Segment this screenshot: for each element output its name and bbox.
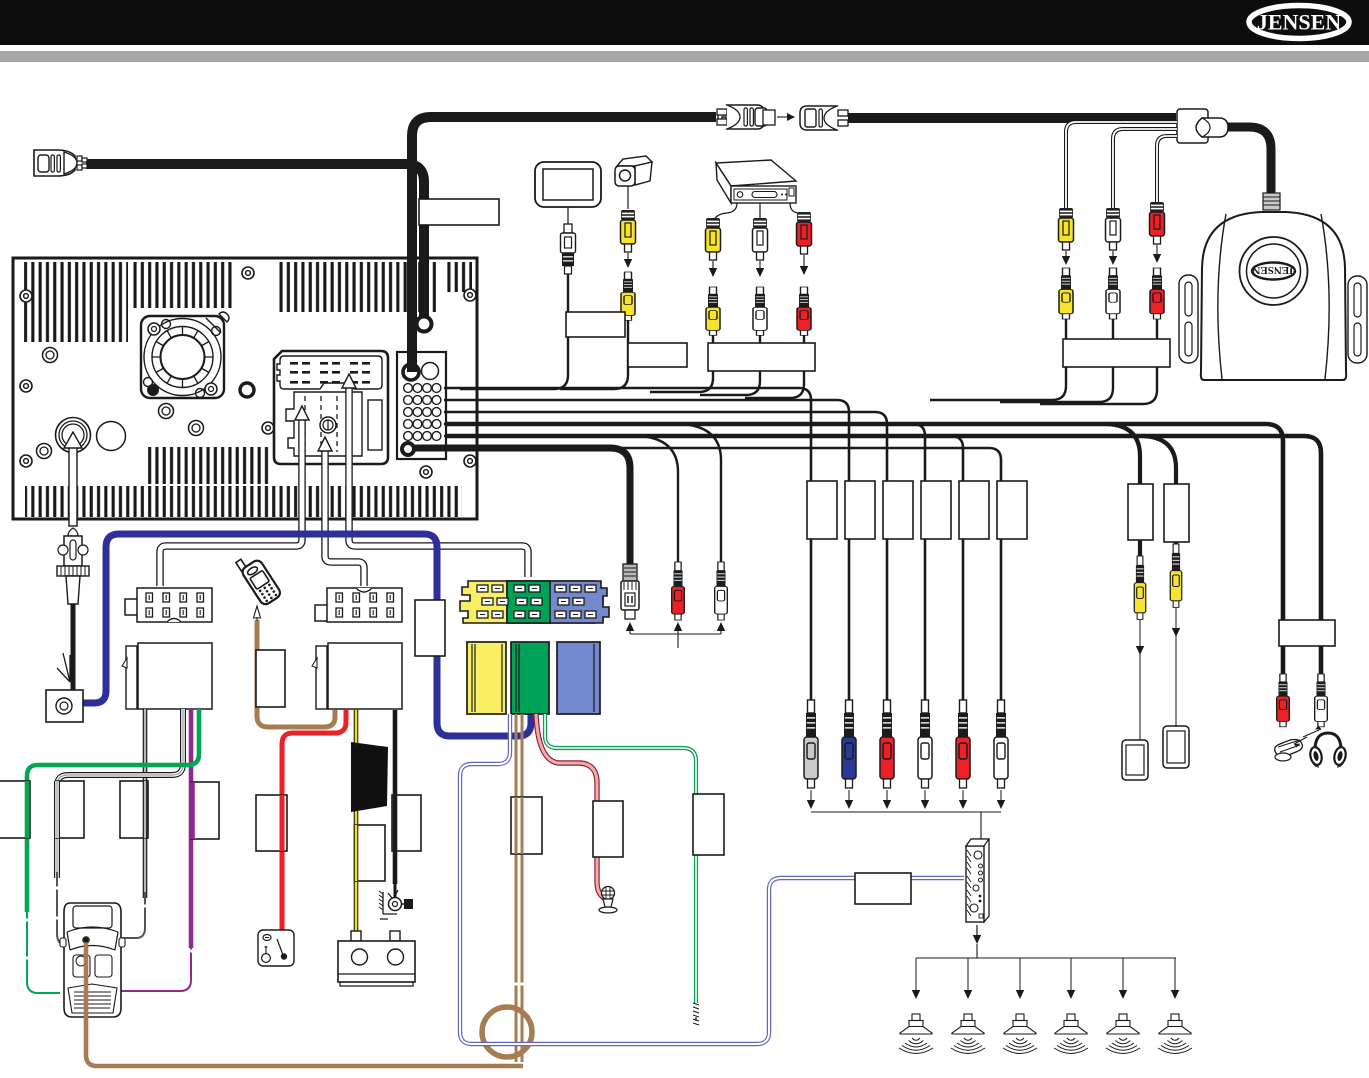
label box: amp turn-on [855, 873, 911, 904]
main wiring connector [274, 351, 388, 464]
label box: purple wire [191, 782, 219, 839]
white RCA plug (headphone) [1315, 674, 1328, 727]
cooling fan [141, 312, 229, 398]
label box: green wire [0, 781, 30, 838]
DVD white plug female [753, 287, 767, 335]
ground terminal [379, 884, 413, 919]
DVD yellow plug male [706, 218, 721, 260]
cables below box [1283, 646, 1321, 678]
green block connector [511, 642, 549, 714]
interface module 2 [312, 643, 402, 709]
label box: cables callout [419, 199, 499, 225]
rear camera icon [615, 156, 652, 209]
monitor white RCA plug [561, 224, 576, 274]
RCA plug gray [804, 700, 818, 788]
tri-color harness connector [460, 581, 609, 623]
right mounting strap [1348, 276, 1367, 363]
wire: pink microphone lead [536, 714, 604, 898]
wire: black ground lead [393, 710, 398, 884]
wire: aux white cable merging into bus [1000, 318, 1113, 402]
label boxes over bundle [807, 481, 837, 539]
wire: red accessory to ignition [282, 710, 346, 936]
battery [338, 931, 415, 986]
label box: headphone audio [1279, 620, 1335, 646]
RCA plug red2 [956, 700, 970, 788]
heatsink fins top-left [24, 262, 128, 342]
label box: phone mute [256, 650, 285, 707]
wire: branch to screen A [1108, 424, 1140, 558]
label box: aux callout [1063, 339, 1170, 367]
label box: screen B cable [1164, 484, 1189, 542]
wire: DVD yellow cable merging into bus [650, 330, 713, 392]
label box: blue lead callout [415, 600, 445, 656]
wire: AV bus line 3 to RCA 3 [444, 412, 887, 700]
A/V RCA jack panel [397, 352, 446, 459]
panel holes [43, 348, 58, 363]
headphones icon [1309, 733, 1348, 767]
label box: DVD callout [708, 343, 815, 371]
wire: thick cable from connector to Jensen sat module [1225, 127, 1271, 194]
wire: blue power antenna lead [83, 534, 531, 736]
RCA plug white [918, 700, 932, 788]
chassis screws [20, 290, 32, 302]
heatsink fins mid-lower [145, 447, 270, 484]
screen B [1163, 726, 1189, 768]
label box: green remote [693, 794, 724, 855]
DVD red plug female [797, 287, 811, 335]
JENSEN logo [1249, 6, 1349, 39]
bare wire end coil [693, 1003, 699, 1025]
wire: branch to white RCA (monitor audio) [682, 424, 721, 566]
wire: iPod/USB cable to head unit (left plug) [86, 164, 424, 316]
wire: long cable to rear monitor 4 [446, 436, 1321, 620]
arrow below amp + speaker bracket [912, 925, 1179, 999]
fuse holder (black) [351, 742, 388, 812]
wire: harness lead C (white) [349, 386, 528, 577]
wire: cable from USB pair to right connector [848, 113, 1176, 123]
microphone icon [599, 887, 617, 914]
screen A [1122, 740, 1148, 780]
arrows + bracket to amp [807, 790, 1005, 839]
svg-text:JENSEN: JENSEN [1257, 10, 1341, 35]
wire: thick video cable to S-video plug [415, 448, 630, 564]
DVD player icon [713, 160, 804, 224]
label box: camera callout [628, 343, 687, 367]
svg-text:JENSEN: JENSEN [1252, 264, 1294, 276]
label box: brown pair [511, 797, 542, 854]
car (top view) [60, 903, 125, 1017]
heatsink fins top-right [278, 262, 440, 312]
heatsink fins bottom row [25, 486, 462, 517]
thin leads + arrows to screens [1136, 608, 1180, 740]
re-draw wires over boxes [25, 781, 30, 838]
aux yellow plug female [1059, 268, 1073, 319]
wire: harness lead A (white) [160, 418, 302, 586]
label box: gray pair [56, 781, 84, 838]
arrows DVD [713, 255, 804, 271]
yellow pins [477, 585, 488, 592]
wire: GPS antenna cable from RCA panel to top [412, 117, 716, 372]
camera yellow plug (female) [621, 272, 635, 320]
wire: harness lead B (white) [325, 448, 364, 586]
grommet ring on unit top (cable2 end) [417, 317, 432, 332]
monitor icon [535, 162, 601, 224]
amplifier [966, 839, 989, 922]
white RCA plug [715, 562, 728, 620]
aux input cables from white connector [1066, 122, 1177, 210]
wire: AV bus line 1 to RCA 1 [444, 388, 811, 700]
wire: DVD red cable merging into bus [745, 330, 804, 398]
wire: aux red cable merging into bus [1040, 318, 1157, 404]
RCA plug blue [842, 700, 856, 788]
wire: brown pair from green block with loop [482, 714, 532, 1062]
label box: pink mic [593, 801, 623, 857]
heatsink fins top-mid [133, 262, 233, 308]
wire: long cable to rear monitor 3 [446, 424, 1283, 620]
label box: gray single [120, 781, 148, 838]
aux white plug female [1106, 268, 1120, 319]
cell phone icon [235, 551, 282, 607]
wire: AV bus line 5 to RCA 5 [444, 436, 963, 700]
wire: AV bus line 2 to RCA 2 [444, 400, 849, 700]
IR transmitter icon [1275, 726, 1321, 762]
antenna jack [56, 418, 91, 453]
brown pair re-over box [516, 797, 522, 854]
antenna plug [57, 528, 89, 604]
header gray bar [0, 51, 1369, 62]
white arrow from antenna jack [64, 432, 82, 526]
blue pins [555, 585, 566, 592]
red RCA plug (headphone) [1277, 674, 1290, 727]
wire: light blue twisted pair to amplifier [460, 714, 964, 1044]
green pins [514, 585, 525, 592]
wire: gray single to car right [122, 709, 145, 938]
left mini plug [34, 150, 87, 176]
yellow RCA plug A [1134, 556, 1145, 619]
camera yellow plug (male) [621, 210, 636, 252]
wire: antenna coax [71, 604, 76, 690]
head unit rear panel [13, 258, 477, 519]
strain relief into sat module [1263, 193, 1280, 210]
label box: yellow wire [355, 825, 385, 881]
yellow block connector [467, 642, 506, 714]
wire: DVD white cable merging into bus [700, 330, 760, 395]
RCA plug white2 [994, 700, 1008, 788]
Jensen satellite radio module [1179, 212, 1367, 380]
antenna base box [46, 690, 83, 722]
USB inline connector pair [717, 105, 848, 130]
8-pin connector 2 [315, 588, 402, 622]
speakers [899, 1014, 933, 1054]
white inline connector top right [1177, 109, 1228, 143]
wire: AV bus line 4 to RCA 4 [444, 424, 925, 700]
aux white plug male [1106, 208, 1121, 250]
arrow camera [627, 253, 629, 262]
arrowheads into head unit connector [295, 406, 309, 420]
wire: monitor video cable merging into bus [460, 266, 568, 389]
arrows aux [1066, 245, 1157, 259]
DVD white plug male [753, 218, 768, 260]
red RCA plug [672, 562, 685, 620]
antenna mast [57, 653, 70, 682]
wire: rear camera cable merging into bus [560, 280, 628, 389]
8-pin connector 1 [125, 588, 212, 622]
heatsink fins top-right small [445, 262, 472, 292]
wire break marks (small white slashes) [24, 888, 525, 984]
aux yellow plug male [1059, 208, 1074, 250]
aux red plug male [1150, 202, 1165, 244]
label box: red wire [256, 795, 287, 851]
header black banner [0, 0, 1369, 45]
wire: purple to car right rear [189, 709, 194, 948]
label box: screen A cable [1128, 484, 1153, 540]
wire: AV bus line 6 to RCA 6 [560, 448, 1001, 700]
wire: branch to red RCA (monitor audio) [640, 436, 678, 566]
label box: black wire [392, 795, 421, 851]
S-video plug [621, 564, 639, 619]
yellow RCA plug B [1170, 544, 1181, 607]
label box: monitor callout [566, 312, 625, 337]
blue block connector [557, 642, 600, 714]
interface module 1 [122, 643, 212, 709]
aux red plug female [1150, 268, 1164, 319]
wire: green to car front left [27, 709, 199, 912]
wire: yellow battery lead [354, 710, 359, 932]
DVD yellow plug female [706, 287, 720, 335]
wire: green pair wired remote lead [545, 714, 696, 1003]
RCA plug red [880, 700, 894, 788]
arrows up to trio [626, 622, 725, 648]
left mounting strap [1179, 275, 1198, 363]
ignition switch icon [258, 930, 294, 966]
wire: phone mute (brown) with arrow to phone [257, 620, 335, 727]
wire: brown sirius antenna lead from car [86, 941, 523, 1066]
wire: aux yellow cable merging into bus [930, 318, 1066, 400]
DVD red plug male [797, 212, 812, 254]
wire: branch to screen B [1144, 436, 1176, 546]
wire: gray pair to car left [57, 709, 183, 944]
